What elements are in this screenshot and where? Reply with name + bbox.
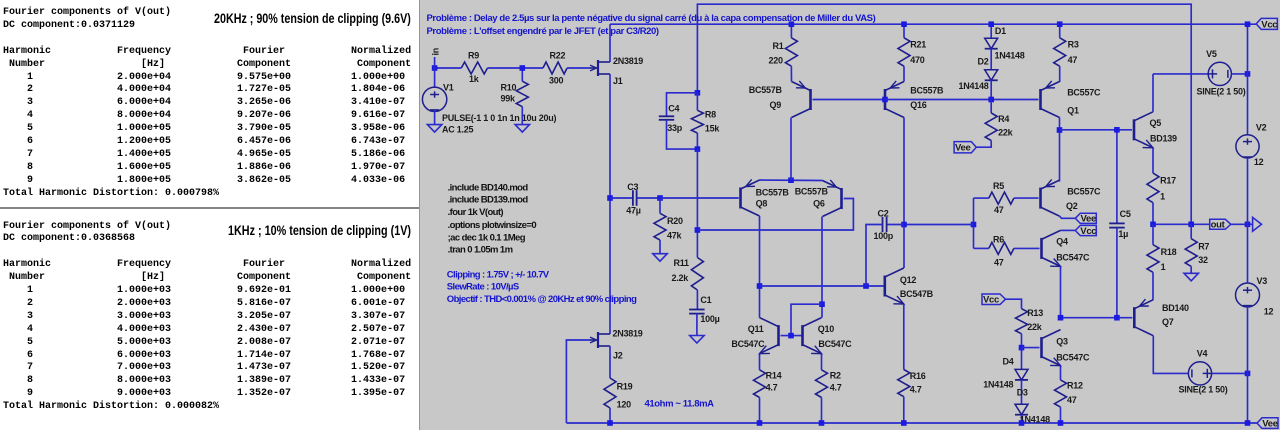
resistor R5	[974, 197, 989, 199]
capacitor C1	[696, 290, 698, 310]
junction R14 bottom	[757, 420, 763, 426]
wire: R5/R6 left link	[973, 198, 975, 248]
junction R12 bottom	[1058, 420, 1064, 426]
junction D2 bottom	[988, 97, 994, 103]
junction R21 top	[901, 21, 907, 27]
junction Q16 base	[882, 97, 888, 103]
svg-text:41ohm ~ 11.8mA: 41ohm ~ 11.8mA	[645, 398, 715, 409]
svg-text:.tran 0 1.05m 1m: .tran 0 1.05m 1m	[448, 244, 513, 255]
junction C3 node	[607, 195, 613, 201]
wire: Q16 collector down to VAS	[903, 118, 905, 269]
voltage source V3	[1236, 283, 1260, 307]
svg-text:R9: R9	[468, 51, 479, 61]
svg-text:1N4148: 1N4148	[959, 81, 989, 91]
svg-text:C4: C4	[668, 103, 679, 113]
svg-text:BC557B: BC557B	[910, 86, 944, 96]
svg-text:2N3819: 2N3819	[613, 329, 643, 339]
junction R10 top	[520, 65, 526, 71]
svg-text:Q8: Q8	[756, 199, 768, 209]
svg-text:2.2k: 2.2k	[672, 273, 690, 283]
wire: Q12 emitter to R16	[903, 304, 905, 370]
ground under C1	[690, 336, 704, 344]
junction Q1 collector / Q5 base line	[1057, 127, 1063, 133]
svg-text:C3: C3	[627, 182, 638, 192]
wire: input node to R9	[435, 67, 462, 69]
wire: Q1 collector down	[1059, 118, 1061, 182]
svg-text:47µ: 47µ	[626, 206, 641, 216]
flag Vee (bottom right)	[1257, 418, 1278, 429]
junction R2 bottom	[819, 420, 825, 426]
svg-text:BC547C: BC547C	[818, 339, 852, 349]
wire: to Q3 base	[1022, 347, 1040, 349]
svg-text:.include BD140.mod: .include BD140.mod	[448, 182, 529, 193]
svg-text:1k: 1k	[469, 74, 480, 84]
junction R1 top	[789, 21, 795, 27]
svg-text:1N4148: 1N4148	[995, 51, 1025, 61]
svg-text:BC557B: BC557B	[756, 188, 790, 198]
resistor R12	[1060, 366, 1062, 380]
svg-text:1: 1	[1161, 262, 1166, 272]
svg-text:.options plotwinsize=0: .options plotwinsize=0	[448, 220, 537, 231]
junction Vee rail right	[1245, 420, 1251, 426]
wire: diff pair emitters	[760, 179, 823, 182]
ground under R10	[515, 125, 529, 133]
flag Vee (R4)	[954, 142, 976, 153]
junction V5 right	[1245, 71, 1251, 77]
svg-text:BC547C: BC547C	[1056, 353, 1090, 363]
transistor Q7 (PNP BD140)	[1133, 307, 1136, 328]
diode D2	[985, 70, 998, 81]
svg-text:R6: R6	[993, 234, 1004, 244]
svg-text:BC557B: BC557B	[795, 187, 829, 197]
wire: Q7 emitter up to R18	[1152, 299, 1154, 301]
wire: to Q5 base	[1060, 129, 1133, 131]
wire: Q2 collector to Vee flag	[1060, 216, 1076, 218]
junction C5 top	[1114, 127, 1120, 133]
resistor R6	[974, 247, 989, 249]
svg-text:Q5: Q5	[1150, 118, 1162, 128]
svg-text:BD139: BD139	[1150, 133, 1177, 143]
wire: bias line to D-chain and Q1 base	[885, 99, 1039, 101]
svg-text:470: 470	[910, 55, 925, 65]
wire: Vcc rail (top)	[610, 23, 1256, 25]
junction D1 top	[988, 21, 994, 27]
svg-text:V5: V5	[1206, 49, 1217, 59]
junction R16 bottom	[901, 420, 907, 426]
svg-text:Vee: Vee	[1081, 214, 1096, 225]
svg-text:.include BD139.mod: .include BD139.mod	[448, 195, 529, 206]
wire: Q6 collector down to Q10	[821, 217, 823, 318]
junction R11 top / feedback	[695, 227, 701, 233]
diode D1	[990, 24, 992, 38]
svg-text:C2: C2	[878, 209, 889, 219]
svg-text:1N4148: 1N4148	[1020, 414, 1050, 424]
transistor Q11 (NPN mirrored)	[777, 325, 780, 346]
svg-text:Q4: Q4	[1056, 236, 1068, 246]
flag Vcc (R13)	[982, 294, 1006, 305]
svg-text:120: 120	[617, 399, 632, 409]
svg-text:R16: R16	[910, 371, 926, 381]
svg-text:Problème : L'offset engendré p: Problème : L'offset engendré par le JFET…	[427, 26, 659, 37]
svg-text:Clipping : 1.75V ; +/- 10.7V: Clipping : 1.75V ; +/- 10.7V	[447, 270, 550, 281]
resistor R18	[1152, 224, 1154, 244]
wire: Q9 emitter to R1	[790, 71, 792, 82]
wire: mirror link	[791, 304, 822, 335]
svg-text:J2: J2	[613, 351, 623, 361]
junction mirror bases	[788, 333, 794, 339]
svg-text:BC557B: BC557B	[749, 85, 783, 95]
svg-text:R3: R3	[1068, 40, 1079, 50]
svg-text:47: 47	[994, 258, 1004, 268]
resistor R17	[1147, 173, 1159, 203]
junction C2 left	[863, 283, 869, 289]
wire: Q9 base to Q16 base	[813, 99, 884, 101]
svg-text:R14: R14	[766, 371, 782, 381]
svg-text:47: 47	[1067, 395, 1077, 405]
capacitor C4	[667, 93, 698, 117]
resistor R8	[696, 93, 698, 111]
wire: Q7 collector to V4	[1153, 336, 1188, 374]
voltage source V2	[1236, 135, 1259, 158]
flag Vee (Q2)	[1075, 213, 1096, 223]
junction Vcc rail right	[1245, 21, 1251, 27]
wire: right supply column	[1247, 24, 1249, 135]
wire: mirror bases	[781, 335, 803, 337]
svg-text:BD140: BD140	[1162, 303, 1189, 313]
wire: J2 gate to bottom rail	[566, 340, 589, 423]
node in: junction dot	[432, 65, 438, 71]
svg-text:Vee: Vee	[1262, 419, 1277, 430]
svg-text:C1: C1	[700, 295, 711, 305]
junction tail node	[788, 177, 794, 183]
transistor Q9 (PNP mirrored)	[809, 89, 812, 110]
svg-text:;ac dec 1k 0.1 1Meg: ;ac dec 1k 0.1 1Meg	[448, 232, 526, 243]
wire: VAS collector to tap	[904, 224, 974, 226]
svg-text:4.7: 4.7	[910, 385, 922, 395]
svg-text:1N4148: 1N4148	[983, 379, 1013, 389]
wire: out node line	[1153, 223, 1210, 225]
svg-text:Objectif : THD<0.001% @ 20KHz: Objectif : THD<0.001% @ 20KHz et 90% cli…	[447, 294, 637, 305]
svg-text:220: 220	[769, 55, 784, 65]
junction R3 top	[1057, 21, 1063, 27]
svg-text:AC 1.25: AC 1.25	[442, 125, 474, 135]
svg-text:4.7: 4.7	[830, 383, 842, 393]
wire: C3 to Q8 base	[660, 197, 739, 199]
svg-text:100µ: 100µ	[700, 314, 719, 324]
capacitor C5	[1116, 130, 1118, 224]
resistor R11	[691, 258, 703, 291]
voltage source V4	[1188, 362, 1211, 385]
wire: J1 source down to J2 drain	[609, 74, 611, 334]
svg-text:R22: R22	[550, 51, 566, 61]
svg-text:R17: R17	[1160, 176, 1176, 186]
svg-text:BC557C: BC557C	[1067, 186, 1101, 196]
resistor R20	[659, 198, 661, 213]
capacitor C2	[887, 224, 904, 226]
flag Vcc (top right)	[1256, 18, 1277, 29]
resistor R10	[521, 68, 523, 81]
wire: R8 bottom down to R11	[696, 149, 698, 257]
svg-text:Vcc: Vcc	[983, 295, 999, 306]
svg-text:99k: 99k	[501, 94, 517, 104]
wire: R22 to J1 gate	[567, 67, 589, 69]
ground under V1	[427, 125, 441, 133]
svg-text:R10: R10	[501, 83, 517, 93]
svg-text:Q2: Q2	[1066, 201, 1078, 211]
svg-text:Vcc: Vcc	[1080, 226, 1096, 237]
ground under R7	[1184, 273, 1198, 281]
svg-text:Q12: Q12	[900, 275, 917, 285]
svg-text:Q6: Q6	[813, 199, 825, 209]
svg-text:D4: D4	[1003, 357, 1014, 367]
junction C5 bottom	[1114, 315, 1120, 321]
resistor R3	[1059, 24, 1061, 38]
svg-text:R1: R1	[773, 41, 784, 51]
transistor Q8 (PNP)	[739, 188, 742, 209]
junction out/R17/R18	[1150, 222, 1156, 228]
junction Q6 collector/mirror link	[819, 301, 825, 307]
wire: Q4 emitter down to Q3 collector	[1060, 266, 1062, 317]
resistor R2	[821, 354, 823, 370]
junction Q3 collector	[1058, 315, 1064, 321]
svg-text:R11: R11	[674, 258, 690, 268]
JFET J1	[597, 60, 599, 76]
resistor R4	[990, 100, 992, 114]
junction out/R7	[1188, 222, 1194, 228]
capacitor C3	[610, 197, 633, 199]
svg-text:out: out	[1211, 220, 1226, 231]
svg-text:15k: 15k	[705, 124, 721, 134]
svg-text:Q16: Q16	[910, 100, 927, 110]
junction Q8 collector / Q12 base	[757, 283, 763, 289]
svg-text:47: 47	[994, 205, 1004, 215]
wire: Q8 collector down to Q11	[759, 216, 761, 318]
voltage source V1	[434, 68, 436, 88]
svg-text:12: 12	[1254, 157, 1264, 167]
svg-text:47k: 47k	[667, 231, 683, 241]
svg-text:BC547C: BC547C	[731, 339, 765, 349]
svg-text:R2: R2	[830, 371, 841, 381]
svg-text:Vee: Vee	[955, 143, 970, 154]
junction C4/R8 bottom	[695, 146, 701, 152]
resistor R1	[790, 24, 792, 38]
svg-text:R4: R4	[998, 114, 1009, 124]
svg-text:R18: R18	[1161, 247, 1177, 257]
svg-text:Q3: Q3	[1056, 337, 1068, 347]
transistor Q2 (PNP)	[1039, 188, 1042, 209]
transistor Q12 (NPN)	[883, 276, 886, 297]
resistor R14	[759, 354, 761, 370]
resistor R9	[461, 62, 487, 74]
svg-text:33p: 33p	[667, 123, 683, 133]
junction D3 bottom	[1019, 420, 1025, 426]
wire: Q7 base line	[1061, 317, 1133, 319]
ground under R20	[653, 254, 667, 262]
wire: tail up to Q9 collector	[790, 118, 792, 181]
flag out	[1210, 219, 1231, 229]
svg-text:V4: V4	[1197, 348, 1208, 358]
svg-text:SINE(2 1 50): SINE(2 1 50)	[1179, 384, 1228, 394]
junction V4 right	[1245, 371, 1251, 377]
junction R13/D4/Q3 base	[1019, 345, 1025, 351]
svg-text:C5: C5	[1120, 209, 1131, 219]
svg-text:BC547B: BC547B	[900, 289, 934, 299]
voltage source V5	[1153, 73, 1208, 75]
transistor Q1 (PNP)	[1039, 89, 1042, 110]
svg-text:.four 1k V(out): .four 1k V(out)	[448, 207, 504, 218]
svg-text:Vcc: Vcc	[1261, 19, 1277, 30]
junction R5/R6 tap	[971, 222, 977, 228]
svg-text:4.7: 4.7	[766, 383, 778, 393]
transistor Q4 (NPN)	[1040, 238, 1043, 259]
svg-text:V1: V1	[443, 82, 454, 92]
svg-text:100p: 100p	[874, 231, 894, 241]
junction C3/R20/Q8 base	[657, 195, 663, 201]
svg-text:2N3819: 2N3819	[613, 56, 643, 66]
svg-text:R19: R19	[617, 382, 633, 392]
svg-text:SlewRate : 10V/µS: SlewRate : 10V/µS	[447, 282, 519, 293]
svg-text:300: 300	[549, 76, 564, 86]
svg-text:R5: R5	[993, 181, 1004, 191]
svg-text:D2: D2	[978, 56, 989, 66]
svg-text:Q9: Q9	[770, 100, 782, 110]
svg-text:SINE(2 1 50): SINE(2 1 50)	[1197, 87, 1246, 97]
JFET J2	[597, 332, 599, 348]
wire: Q5 collector up to V5	[1152, 74, 1154, 112]
svg-text:R20: R20	[667, 216, 683, 226]
resistor R13	[1006, 299, 1022, 309]
resistor R21	[903, 24, 905, 38]
svg-text:BC557C: BC557C	[1067, 87, 1101, 97]
svg-text:D1: D1	[995, 26, 1006, 36]
wire: J1 drain to Vcc rail	[609, 24, 611, 62]
diode D3	[1021, 380, 1023, 404]
svg-text:R7: R7	[1198, 241, 1209, 251]
svg-text:R8: R8	[705, 110, 716, 120]
resistor R22	[543, 62, 567, 74]
svg-text:J1: J1	[613, 76, 623, 86]
transistor Q6 (PNP mirrored)	[840, 188, 843, 209]
wire: bottom Vee rail	[566, 422, 1257, 424]
svg-text:V2: V2	[1256, 122, 1267, 132]
transistor Q5 (NPN BD139)	[1133, 119, 1136, 140]
junction R19 bottom	[607, 420, 613, 426]
wire: Q5 emitter to R17	[1152, 148, 1154, 173]
svg-text:in: in	[431, 48, 441, 56]
junction C4/R8 top	[695, 90, 701, 96]
svg-text:32: 32	[1198, 255, 1208, 265]
junction VAS collector	[901, 222, 907, 228]
port triangle at out	[1248, 223, 1253, 225]
wire: out rail (top)	[697, 4, 1191, 224]
svg-text:R21: R21	[910, 40, 926, 50]
diode D4	[1021, 348, 1023, 370]
resistor R16	[898, 370, 910, 397]
resistor R7	[1190, 224, 1192, 238]
svg-text:PULSE(-1 1 0 1n 1n 10u 20u): PULSE(-1 1 0 1n 1n 10u 20u)	[442, 113, 557, 123]
junction out/V-column	[1245, 222, 1251, 228]
svg-text:Q11: Q11	[748, 324, 764, 334]
wire: Q4 collector to Vcc flag	[1061, 229, 1076, 231]
svg-text:D3: D3	[1017, 388, 1028, 398]
svg-text:Q10: Q10	[818, 324, 835, 334]
svg-text:BC547C: BC547C	[1056, 253, 1090, 263]
svg-text:Q7: Q7	[1162, 317, 1174, 327]
wire: VAS base line	[760, 285, 885, 287]
net label in (rotated)	[434, 57, 436, 68]
transistor Q16 (PNP)	[884, 89, 887, 110]
flag Vcc (Q4)	[1075, 225, 1096, 235]
transistor Q10 (NPN)	[801, 325, 804, 346]
svg-text:12: 12	[1264, 307, 1274, 317]
svg-text:V3: V3	[1257, 276, 1268, 286]
svg-text:1µ: 1µ	[1118, 229, 1128, 239]
transistor Q3 (NPN)	[1040, 337, 1043, 358]
svg-text:1: 1	[1160, 191, 1165, 201]
svg-text:R13: R13	[1027, 308, 1043, 318]
resistor R19	[609, 346, 611, 378]
svg-text:R12: R12	[1067, 381, 1083, 391]
svg-text:Q1: Q1	[1067, 105, 1079, 115]
wire: feedback to Q6 base	[697, 199, 853, 231]
svg-text:22k: 22k	[998, 128, 1014, 138]
svg-text:Problème : Delay de 2.5µs sur: Problème : Delay de 2.5µs sur la pente n…	[427, 13, 876, 24]
wire: R9 to R22	[488, 67, 544, 69]
svg-text:22k: 22k	[1027, 322, 1043, 332]
svg-text:47: 47	[1068, 55, 1078, 65]
